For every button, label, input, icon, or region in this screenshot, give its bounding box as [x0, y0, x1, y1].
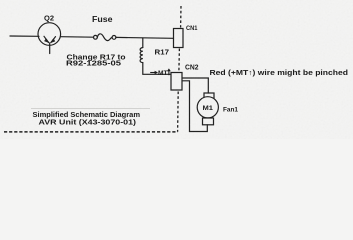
node +MT label up arrow — [167, 68, 171, 75]
title box faint border — [31, 108, 150, 110]
node +MT label arrow — [150, 71, 158, 75]
connector CN2 — [171, 73, 182, 91]
motor M1 body — [197, 97, 218, 118]
fuse F1 — [94, 34, 116, 41]
transistor Q2 — [38, 23, 61, 54]
wire through Q2 to fuse — [61, 36, 94, 39]
wire CN2 upper pin to motor top (Red +MT wire) — [182, 78, 208, 93]
wire junction vertical to R17 — [142, 38, 144, 48]
connector CN1 — [174, 29, 184, 48]
wire R17 to +MT node — [143, 63, 171, 75]
wire main horizontal — [10, 35, 39, 37]
unit boundary dashed — [4, 6, 181, 132]
wire fuse to CN1 — [116, 36, 174, 39]
wire CN2 lower pin to motor bottom — [182, 81, 207, 132]
resistor R17 — [140, 48, 143, 63]
motor M1 terminals — [204, 93, 214, 98]
